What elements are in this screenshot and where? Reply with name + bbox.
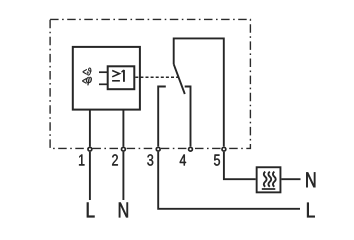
terminal 2 <box>122 147 126 151</box>
label L (bottom line) <box>307 203 315 218</box>
heater underline <box>262 188 276 190</box>
OR gate glyph: digit 1 flag <box>122 70 124 72</box>
dash-dot enclosure (device boundary) <box>50 19 250 148</box>
terminal 1 <box>88 147 92 151</box>
switch: top bridge wire <box>174 38 224 146</box>
terminal label 4 <box>180 154 186 165</box>
input stub from phi to OR gate <box>99 83 108 85</box>
sensor label &lt;phi <box>82 78 86 83</box>
heater wave 1 <box>264 172 267 187</box>
wire: terminal 3 down and right to L <box>158 152 300 209</box>
input stub from theta to OR gate <box>99 71 108 73</box>
wire: terminal 2 lead up to device box <box>122 110 124 147</box>
OR gate glyph: digit 1 stem <box>123 70 125 82</box>
wire: terminal 5 down and right to heater <box>224 152 256 179</box>
terminal 4 <box>189 147 193 151</box>
wire: terminal 1 lead up to device box <box>89 110 91 147</box>
dashed actuation line from OR gate to switch blade <box>135 76 179 78</box>
label N (terminal 2) <box>119 203 128 218</box>
terminal label 3 <box>147 154 153 165</box>
OR gate glyph: greater-equal angle <box>112 71 119 77</box>
label L (terminal 1) <box>87 203 95 218</box>
wire: terminal 2 down to N <box>122 152 124 200</box>
heater wave 2 <box>268 172 271 187</box>
OR gate box U1 <box>108 66 135 89</box>
device box (thermostat/hygrostat logic block) <box>73 47 140 110</box>
terminal 5 <box>222 147 226 151</box>
contact arm of terminal 4 <box>185 87 191 147</box>
label N (heater line) <box>306 172 315 187</box>
heater wave 3 <box>273 172 276 187</box>
switch blade (movable contact) <box>174 64 185 94</box>
terminal label 5 <box>214 154 220 165</box>
heater box E1 <box>257 167 281 192</box>
terminal 3 <box>156 147 160 151</box>
wire: heater to N <box>281 178 300 180</box>
sensor label &lt;theta <box>83 68 92 76</box>
terminal label 2 <box>112 154 118 165</box>
wire: terminal 1 down to L <box>89 152 91 200</box>
contact arm of terminal 3 <box>158 87 166 147</box>
OR gate glyph: greater-equal underline <box>112 80 120 82</box>
terminal label 1 <box>79 154 84 165</box>
